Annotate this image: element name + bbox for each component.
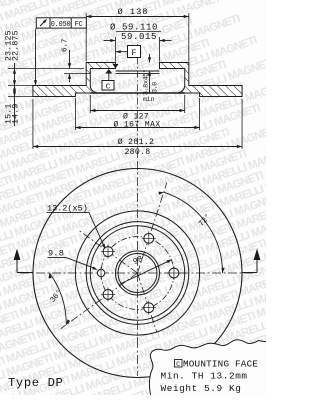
dimension dia 281.2 / 280.8	[32, 99, 34, 149]
break cloud region	[149, 340, 266, 395]
svg-text:280.8: 280.8	[124, 148, 150, 157]
svg-text:Ø 167 MAX: Ø 167 MAX	[113, 120, 160, 129]
FCF leader to friction surface	[35, 28, 37, 29]
dimension 23.125/22.875	[8, 68, 84, 70]
datum F triangle on bore edge	[113, 64, 119, 69]
svg-text:FC: FC	[75, 21, 83, 29]
angular dimension 36deg	[50, 273, 67, 325]
bolt hole 13.2 at 288deg	[144, 303, 154, 313]
dimension 3.8x45deg and 3.0 min	[149, 54, 151, 63]
circle dia 127	[90, 226, 184, 320]
angular dimension 72deg	[164, 192, 223, 273]
svg-text:Weight 5.9 Kg: Weight 5.9 Kg	[161, 383, 242, 394]
bolt circle dia 98 dash-dot	[101, 237, 174, 310]
radial centerline 72deg	[138, 183, 167, 273]
bolt hole 13.2 at 72deg	[144, 233, 154, 243]
dimension dia 59.110/59.015	[115, 37, 117, 62]
note: boxed C mounting face	[175, 360, 183, 368]
svg-text:MOUNTING FACE: MOUNTING FACE	[183, 358, 258, 369]
radial centerline 288deg	[138, 273, 157, 332]
dimension line dia 138	[85, 13, 87, 62]
dimension dia 127	[89, 95, 91, 113]
svg-text:Min. TH 13.2mm: Min. TH 13.2mm	[161, 371, 248, 382]
svg-text:6.7: 6.7	[62, 39, 70, 52]
leader 98 bolt circle	[119, 261, 170, 285]
web bottom far edge visible through hat cavity	[90, 92, 184, 94]
front view outer circle dia 281	[33, 169, 242, 378]
radial centerline 144deg	[79, 231, 137, 273]
svg-text:C: C	[106, 83, 111, 91]
datum F box	[128, 46, 141, 58]
dimension 6.7 hat plate	[64, 73, 90, 75]
bolt hole 13.2 at 216deg	[103, 290, 113, 300]
hub bore circles	[116, 251, 160, 295]
svg-text:13.2(x5): 13.2(x5)	[47, 204, 88, 214]
svg-text:14.9: 14.9	[12, 104, 21, 124]
vertical centerline through cloud	[137, 339, 139, 376]
circle dia 167	[75, 211, 199, 335]
svg-text:min: min	[143, 96, 154, 103]
svg-text:22.875: 22.875	[12, 30, 21, 61]
radial centerline 216deg	[61, 273, 138, 329]
brake disc cross-section: left half material	[33, 63, 116, 97]
svg-text:F: F	[132, 49, 137, 58]
dimension dia 167 MAX	[74, 98, 76, 130]
svg-text:9.8: 9.8	[48, 248, 64, 258]
datum C mounting face	[105, 69, 112, 74]
svg-text:59.015: 59.015	[121, 32, 157, 42]
locating pin hole 9.8 at 180deg	[97, 269, 104, 276]
dimension 15.1/14.9	[13, 86, 16, 91]
svg-text:Ø 281.2: Ø 281.2	[118, 137, 155, 147]
svg-text:3.0: 3.0	[151, 82, 158, 93]
svg-text:Ø 138: Ø 138	[117, 7, 148, 17]
hub register step lines seen through bore	[116, 70, 160, 72]
runout symbol	[40, 20, 47, 27]
horizontal centerline	[20, 272, 255, 274]
svg-text:0.050: 0.050	[51, 21, 71, 29]
bolt hole 13.2 at 0deg	[169, 268, 179, 278]
svg-text:C: C	[176, 361, 180, 369]
feature control frame runout 0.050 FC	[36, 18, 86, 28]
brake disc cross-section: right half material	[159, 63, 242, 97]
svg-text:Type DP: Type DP	[8, 376, 63, 390]
circle dia 138 hat	[86, 222, 189, 325]
vertical centerline	[137, 161, 139, 339]
section cut arrow right	[242, 272, 257, 274]
svg-text:3.8x45°: 3.8x45°	[141, 69, 149, 95]
section cut arrow left	[17, 272, 33, 274]
bolt hole 13.2 at 144deg	[103, 247, 113, 257]
section vertical centerline	[137, 44, 139, 158]
break cloud wavy line	[149, 340, 266, 395]
